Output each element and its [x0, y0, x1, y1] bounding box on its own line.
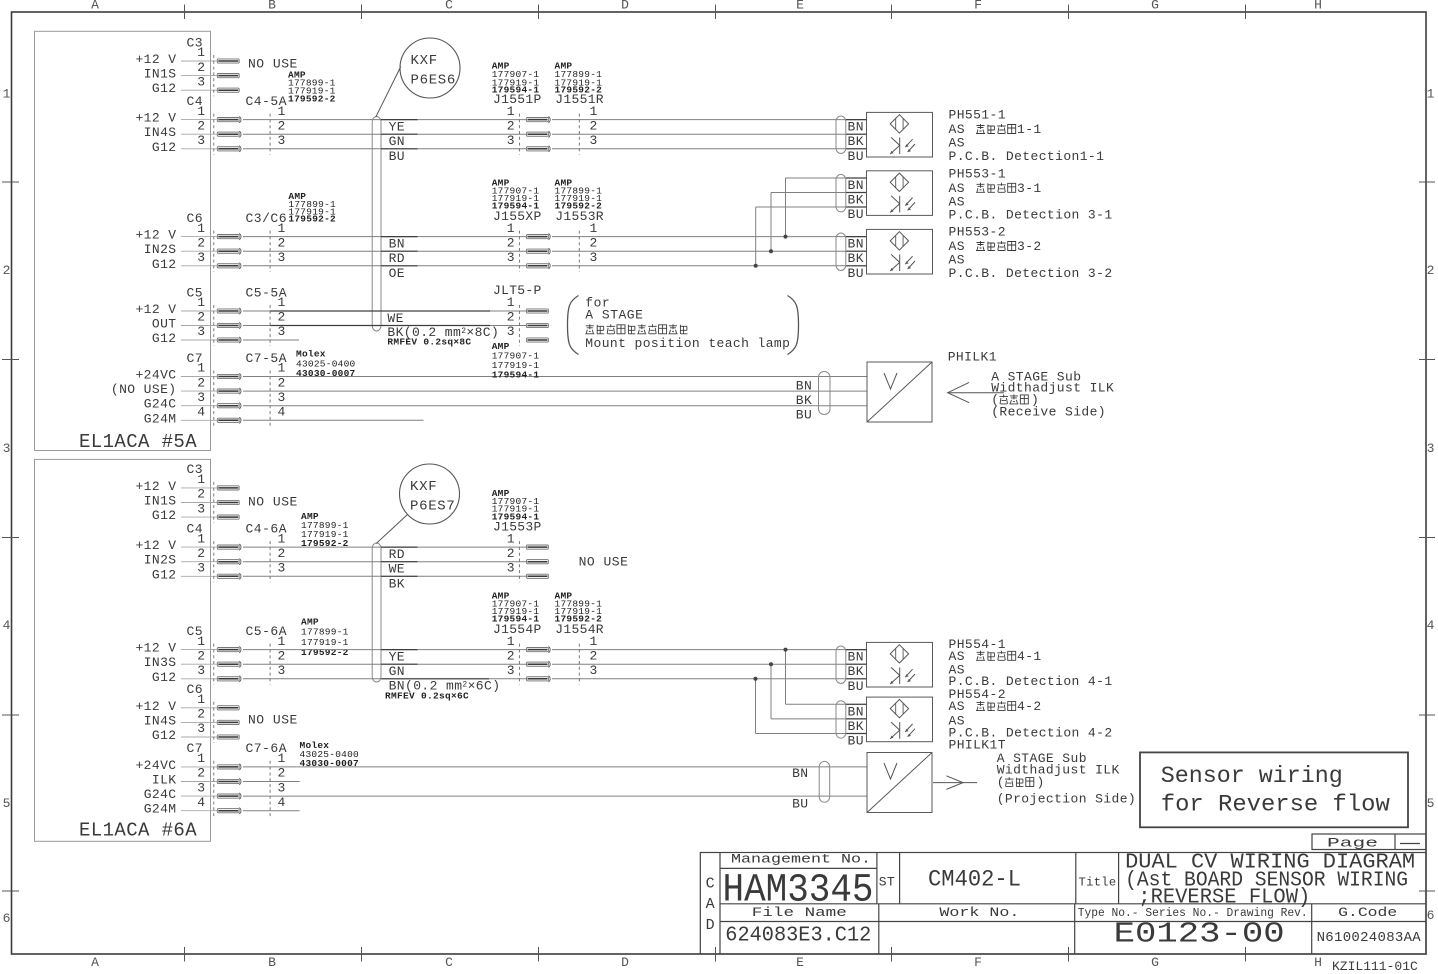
svg-text:1: 1 — [197, 295, 205, 310]
wire color label BN C3/C6 cable — [381, 237, 418, 252]
wire color label RD C4-6A cable — [381, 547, 418, 562]
cable sheath PH554-1 cable — [836, 646, 846, 684]
frame column letters top — [91, 0, 1322, 13]
connector face dashed line J155XP — [518, 231, 520, 272]
wire stub pin 1 of C4 — [181, 119, 217, 121]
pin contact 3 of C7 — [217, 794, 239, 798]
part number stack AMP J155XP — [492, 178, 540, 212]
frame row tick marks left — [2, 182, 19, 891]
wire BN J1553R to PH553-2 — [552, 236, 867, 238]
wire BU branch to PH553-1 — [756, 207, 867, 266]
photo sensor PH554-2 — [867, 697, 933, 742]
wire color labels BN BU PHILK1T — [792, 766, 808, 812]
svg-text:BK: BK — [848, 664, 864, 679]
wire BK C5-5A to JLT5-P pin2 — [243, 325, 527, 327]
connector face dashed line C6 — [213, 702, 215, 743]
svg-text:ST: ST — [879, 875, 895, 890]
connector face dashed line C7 — [213, 761, 215, 817]
wire color label BK(0.2 mm2x8C) C5-5A cable — [270, 325, 499, 340]
EL1ACA #6A board box — [35, 459, 211, 841]
wire stub pin 3 of C7 — [181, 795, 217, 797]
svg-text:for Reverse flow: for Reverse flow — [1161, 792, 1390, 818]
wire stub pin 2 of C5 — [181, 663, 217, 665]
svg-text:PH553-2: PH553-2 — [949, 225, 1006, 240]
wire stub C7-6A pin2 ILK — [243, 781, 300, 783]
svg-text:AS: AS — [949, 699, 965, 714]
part number stack AMP C3/C6 — [288, 191, 336, 225]
part number stack AMP C5-6A — [301, 616, 349, 658]
connector face dashed line C5 — [213, 305, 215, 346]
wire BK C7-5A to PHILK1 — [243, 390, 867, 392]
sensor labels PH554-1 — [949, 637, 1113, 689]
wire BN C5-6A to J1554P — [243, 678, 527, 680]
wire WE C4-6A to J1553P — [243, 561, 527, 563]
svg-text:3: 3 — [197, 501, 205, 516]
cable sheath PHILK1 cable — [819, 372, 831, 415]
svg-text:EL1ACA #5A: EL1ACA #5A — [79, 431, 197, 453]
svg-text:): ) — [1037, 775, 1045, 790]
part number stack AMP J1553R — [555, 178, 603, 212]
part number stack AMP C4-6A — [301, 511, 349, 549]
part number stack AMP J1554P — [492, 591, 540, 625]
svg-text:BN: BN — [389, 237, 405, 252]
svg-text:C: C — [445, 0, 453, 13]
wire stub C5-5A pin3 — [243, 339, 299, 341]
svg-text:3: 3 — [590, 133, 598, 148]
wire stub pin 1 of C6 — [181, 707, 217, 709]
svg-text:3: 3 — [278, 780, 286, 795]
svg-text:2: 2 — [507, 118, 515, 133]
svg-text:1: 1 — [3, 87, 11, 102]
pin contact 1 of C7 — [217, 374, 239, 378]
wire BK branch to PH553-1 — [771, 193, 867, 252]
svg-text:BK: BK — [848, 193, 864, 208]
wire stub pin 3 of C5 — [181, 678, 217, 680]
svg-text:EL1ACA #6A: EL1ACA #6A — [79, 820, 197, 842]
svg-text:2: 2 — [278, 648, 286, 663]
cable sheath PHILK1T cable — [819, 761, 830, 802]
svg-text:3: 3 — [197, 780, 205, 795]
svg-text:3: 3 — [507, 324, 515, 339]
wire stub pin 2 of C3 — [181, 502, 217, 504]
svg-text:3: 3 — [197, 561, 205, 576]
wire color label BK PH554-2 — [846, 719, 867, 734]
svg-text:1: 1 — [197, 692, 205, 707]
svg-text:3: 3 — [197, 74, 205, 89]
part number stack AMP J1554R — [555, 591, 603, 625]
svg-text:AS: AS — [949, 649, 965, 664]
pin contact 1 of C3 — [217, 59, 239, 63]
wire label RMFEV 0.2sqx8C — [387, 336, 471, 347]
pin contact 3 of C4 — [217, 574, 239, 578]
connector face dashed line C5 — [213, 644, 215, 685]
interlock sensor PHILK1 — [867, 362, 932, 422]
pin contact 1 of J155XP — [527, 234, 551, 240]
svg-text:D: D — [706, 917, 715, 934]
svg-text:IN2S: IN2S — [144, 242, 177, 257]
svg-text:2: 2 — [197, 235, 205, 250]
svg-text:2: 2 — [507, 235, 515, 250]
pin contact 1 of C4 — [217, 118, 239, 122]
connector face dashed line J1551P — [518, 114, 520, 155]
svg-text:+12 V: +12 V — [135, 479, 176, 494]
svg-text:+12 V: +12 V — [135, 52, 176, 67]
wire color label YE C5-6A cable — [381, 650, 418, 665]
wire color label GN C5-6A cable — [381, 664, 418, 679]
svg-text:BU: BU — [792, 797, 808, 812]
svg-text:C4-5A: C4-5A — [246, 94, 288, 109]
wire stub pin 3 of C4 — [181, 148, 217, 150]
svg-text:(Receive Side): (Receive Side) — [991, 405, 1106, 420]
svg-text:C: C — [445, 955, 453, 970]
svg-text:3: 3 — [1427, 441, 1435, 456]
wire stub pin 1 of C7 — [181, 376, 217, 378]
svg-text:P6ES7: P6ES7 — [410, 499, 456, 515]
frame column tick marks top — [185, 5, 1246, 20]
wire color label OE C3/C6 cable — [381, 266, 418, 281]
svg-text:1: 1 — [590, 104, 598, 119]
pin contact 1 of J1551P — [527, 117, 551, 123]
svg-text:KZIL111-01C: KZIL111-01C — [1332, 959, 1418, 974]
wire BK J1553R to PH553-2 — [552, 250, 867, 252]
part number stack Molex C7-6A — [300, 740, 360, 769]
svg-text:3: 3 — [278, 250, 286, 265]
brace note A STAGE teach lamp — [568, 295, 799, 354]
svg-text:1: 1 — [1427, 87, 1435, 102]
wire stub pin 1 of C3 — [181, 60, 217, 62]
pin contact 2 of C4 — [217, 560, 239, 564]
svg-text:BK: BK — [389, 576, 405, 591]
pin contact 2 of JLT5-P — [527, 323, 549, 327]
connector J1554R — [555, 622, 604, 685]
junction dot BK branch PH553 — [769, 249, 773, 253]
junction dot BU branch PH554 — [754, 677, 758, 681]
wire RD C4-6A to J1553P — [243, 546, 527, 548]
svg-text:ILK: ILK — [152, 773, 177, 788]
svg-text:2: 2 — [590, 118, 598, 133]
label NO USE C3 #5A — [248, 57, 298, 72]
pin contact 1 of C4 — [217, 545, 239, 549]
wire stub pin 1 of C7 — [181, 766, 217, 768]
connector face dashed line C6 — [213, 231, 215, 272]
title block frame — [700, 853, 1426, 955]
wire color label RD C3/C6 cable — [381, 251, 418, 266]
pin contact 1 of J1553P — [527, 545, 549, 549]
wire stub pin 4 of C7 — [181, 419, 217, 421]
pin contact 2 of C3 — [217, 74, 239, 78]
svg-text:P.C.B. Detection1-1: P.C.B. Detection1-1 — [949, 149, 1105, 164]
frame column letters bottom — [91, 955, 1322, 970]
svg-text:B: B — [268, 955, 276, 970]
pin contact 2 of J155XP — [527, 248, 551, 254]
svg-text:1: 1 — [197, 45, 205, 60]
pin contact 2 of J1553P — [527, 560, 549, 564]
wire stub pin 3 of C6 — [181, 736, 217, 738]
svg-text:3: 3 — [590, 663, 598, 678]
wire BN J1554R to PH554-1 — [552, 649, 867, 651]
connector C3 (#6A) — [135, 462, 239, 523]
frame row numbers right — [1427, 87, 1435, 924]
pin contact 3 of J155XP — [527, 263, 551, 269]
svg-text:G24M: G24M — [144, 802, 177, 817]
pin contact 1 of J1554P — [527, 647, 551, 653]
pin contact 3 of C5 — [217, 338, 239, 342]
wire color label BK PH551-1 — [846, 134, 867, 149]
wire stub pin 1 of C4 — [181, 546, 217, 548]
svg-text:E0123-00: E0123-00 — [1114, 918, 1285, 951]
svg-text:RMFEV 0.2sq×8C: RMFEV 0.2sq×8C — [387, 336, 471, 347]
svg-text:1: 1 — [197, 472, 205, 487]
svg-text:3: 3 — [278, 663, 286, 678]
wire stub pin 3 of C4 — [181, 575, 217, 577]
connector face dashed line C7 — [213, 371, 215, 427]
svg-text:C: C — [706, 875, 715, 892]
svg-text:2: 2 — [1427, 263, 1435, 278]
wire BN J1551R to PH551-1 — [552, 119, 867, 121]
svg-text:BK: BK — [848, 719, 864, 734]
svg-text:G12: G12 — [152, 567, 177, 582]
svg-text:H: H — [1314, 0, 1322, 13]
svg-text:GN: GN — [389, 134, 405, 149]
svg-text:G12: G12 — [152, 508, 177, 523]
svg-text:2: 2 — [507, 310, 515, 325]
wire BU C7-6A to PHILK1T — [243, 795, 867, 797]
svg-text:A STAGE: A STAGE — [585, 307, 643, 322]
wire BU J1551R to PH551-1 — [552, 148, 867, 150]
photo sensor PH554-1 — [867, 642, 933, 687]
svg-text:PHILK1: PHILK1 — [948, 349, 997, 364]
svg-text:2: 2 — [278, 546, 286, 561]
junction dot BK branch PH554 — [769, 662, 773, 666]
pin contact 2 of C3 — [217, 500, 239, 504]
svg-text:3: 3 — [3, 441, 11, 456]
pin contact 3 of C7 — [217, 404, 239, 408]
label NO USE J1553P — [579, 555, 629, 570]
svg-text:J1554P: J1554P — [493, 622, 542, 637]
svg-text:1: 1 — [197, 221, 205, 236]
svg-text:2: 2 — [590, 648, 598, 663]
svg-text:JLT5-P: JLT5-P — [493, 283, 542, 298]
pin contact 1 of C7 — [217, 765, 239, 769]
svg-text:WE: WE — [387, 311, 403, 326]
svg-text:G: G — [1151, 955, 1159, 970]
svg-text:IN1S: IN1S — [144, 494, 177, 509]
svg-text:J1553P: J1553P — [493, 519, 542, 534]
wire stub pin 3 of C7 — [181, 405, 217, 407]
connector C4 (#6A) — [135, 521, 287, 582]
svg-text:1: 1 — [590, 634, 598, 649]
svg-text:BN: BN — [848, 120, 864, 135]
svg-text:(NO USE): (NO USE) — [111, 382, 177, 397]
svg-text:2: 2 — [278, 375, 286, 390]
wire color label BN PH553-1 — [846, 178, 867, 193]
sensor labels PH553-2 — [949, 225, 1113, 281]
wire color label GN C4-5A cable — [381, 134, 418, 149]
wire BK J1551R to PH551-1 — [552, 133, 867, 135]
page box — [1312, 834, 1426, 851]
labels PHILK1 — [948, 349, 1115, 419]
svg-text:Work No.: Work No. — [939, 905, 1019, 920]
wire color label YE C4-5A cable — [381, 120, 418, 135]
sensor labels PH554-2 — [949, 687, 1113, 741]
svg-text:+12 V: +12 V — [135, 111, 176, 126]
svg-text:NO USE: NO USE — [579, 555, 629, 570]
frame column tick marks bottom — [185, 947, 1246, 962]
svg-text:J155XP: J155XP — [493, 209, 542, 224]
pin contact 3 of C4 — [217, 147, 239, 151]
connector C4 (#5A) — [135, 94, 287, 155]
svg-text:2: 2 — [590, 235, 598, 250]
svg-text:2: 2 — [197, 60, 205, 75]
interlock sensor PHILK1T — [867, 753, 932, 813]
pin contact 4 of C7 — [217, 418, 239, 422]
svg-text:179592-2: 179592-2 — [301, 647, 349, 658]
svg-text:BU: BU — [848, 207, 864, 222]
balloon KXF P6ES7 — [376, 464, 459, 544]
svg-text:2: 2 — [278, 310, 286, 325]
cable sheath KXF P6ES6 cable — [372, 117, 381, 332]
cable sheath KXF P6ES7 cable — [372, 543, 381, 682]
wire BN C7-5A to PHILK1 — [243, 376, 867, 378]
svg-text:G12: G12 — [152, 257, 177, 272]
svg-text:6: 6 — [3, 911, 11, 926]
part number stack AMP J1551R — [555, 61, 603, 96]
wire stub pin 2 of C6 — [181, 250, 217, 252]
svg-text:4: 4 — [278, 405, 286, 420]
pin contact 3 of C3 — [217, 88, 239, 92]
cable sheath PH551-1 cable — [836, 116, 846, 154]
connector C6 (#5A) — [135, 211, 287, 272]
svg-text:2: 2 — [197, 766, 205, 781]
frame row tick marks right — [1419, 182, 1435, 891]
sensor labels PH553-1 — [949, 167, 1113, 223]
wire BU J1554R to PH554-1 — [552, 678, 867, 680]
svg-text:2: 2 — [278, 235, 286, 250]
svg-text:E: E — [796, 0, 804, 13]
wire BK J1554R to PH554-1 — [552, 663, 867, 665]
svg-text:IN2S: IN2S — [144, 553, 177, 568]
svg-text:Widthadjust ILK: Widthadjust ILK — [991, 381, 1114, 396]
svg-text:+12 V: +12 V — [135, 538, 176, 553]
svg-text:CM402-L: CM402-L — [928, 867, 1021, 893]
pin contact 2 of C7 — [217, 779, 239, 783]
connector C5 (#6A) — [135, 624, 287, 685]
svg-text:A: A — [706, 896, 715, 913]
svg-text:Mount position teach lamp: Mount position teach lamp — [585, 336, 790, 351]
svg-text:2: 2 — [197, 118, 205, 133]
connector JLT5-P — [493, 283, 548, 346]
svg-text:YE: YE — [389, 650, 405, 665]
svg-text:1: 1 — [507, 295, 515, 310]
svg-text:G.Code: G.Code — [1338, 905, 1397, 920]
svg-text:C5-6A: C5-6A — [246, 624, 288, 639]
svg-text:G12: G12 — [152, 670, 177, 685]
connector J1551R — [555, 92, 604, 155]
junction dot BU branch PH553 — [754, 264, 758, 268]
svg-text:G12: G12 — [152, 81, 177, 96]
svg-text:2: 2 — [197, 546, 205, 561]
title block texts — [706, 850, 1422, 950]
svg-text:G: G — [1151, 0, 1159, 13]
wire color label BU C4-5A cable — [381, 149, 418, 164]
connector C7 (#5A) — [111, 351, 287, 427]
svg-text:PH553-1: PH553-1 — [949, 167, 1006, 182]
svg-text:3-1: 3-1 — [1017, 181, 1042, 196]
wire BN C7-6A to PHILK1T — [243, 766, 867, 768]
svg-text:2: 2 — [197, 310, 205, 325]
svg-text:3: 3 — [507, 133, 515, 148]
pin contact 1 of JLT5-P — [527, 309, 549, 313]
junction dot BN branch PH553 — [784, 235, 788, 239]
svg-text:+12 V: +12 V — [135, 228, 176, 243]
svg-text:NO USE: NO USE — [248, 495, 298, 510]
svg-text:2: 2 — [3, 263, 11, 278]
pin contact 2 of C4 — [217, 132, 239, 136]
svg-text:4: 4 — [197, 405, 205, 420]
pin contact 1 of C6 — [217, 706, 239, 710]
wire stub pin 4 of C7 — [181, 810, 217, 812]
pin contact 1 of C3 — [217, 486, 239, 490]
wire stub pin 2 of C4 — [181, 561, 217, 563]
wire color labels BN BK BU PHILK1 — [796, 379, 812, 423]
svg-text:OUT: OUT — [152, 317, 177, 332]
svg-text:4: 4 — [3, 618, 11, 633]
svg-text:BU: BU — [848, 149, 864, 164]
wire color label BK PH553-2 — [846, 251, 867, 266]
wire color label BK C4-6A cable — [381, 576, 418, 591]
part number stack Molex C7-5A — [296, 349, 356, 380]
connector J1554P — [493, 622, 550, 685]
svg-text:3: 3 — [197, 663, 205, 678]
wire stub pin 1 of C5 — [181, 649, 217, 651]
wire BU branch to PH554-2 — [756, 679, 867, 734]
photo sensor PH551-1 — [867, 112, 933, 157]
svg-text:KXF: KXF — [411, 53, 438, 69]
svg-text:Widthadjust ILK: Widthadjust ILK — [997, 763, 1120, 778]
svg-text:BU: BU — [848, 679, 864, 694]
part number stack AMP C7-5A J — [492, 341, 540, 381]
wire label RMFEV 0.2sqx6C — [385, 690, 469, 701]
wire color label BK PH553-1 — [846, 193, 867, 208]
connector J1553P — [493, 519, 548, 582]
wire stub pin 1 of C6 — [181, 236, 217, 238]
EL1ACA #5A board box — [35, 31, 211, 453]
svg-text:G24C: G24C — [144, 787, 177, 802]
wire stub pin 3 of C3 — [181, 89, 217, 91]
wire color label BU PH553-1 — [846, 207, 867, 222]
svg-text:179594-1: 179594-1 — [492, 370, 540, 381]
svg-text:G12: G12 — [152, 140, 177, 155]
wire GN C4-5A to J1551P — [243, 133, 527, 135]
arrow projection PHILK1T — [933, 776, 977, 790]
svg-text:3: 3 — [197, 250, 205, 265]
svg-text:1: 1 — [590, 221, 598, 236]
svg-text:2: 2 — [278, 118, 286, 133]
pin contact 1 of C6 — [217, 235, 239, 239]
svg-text:+12 V: +12 V — [135, 302, 176, 317]
wire stub pin 3 of C3 — [181, 516, 217, 518]
svg-text:RD: RD — [389, 547, 405, 562]
wire color label BN PH554-1 — [846, 650, 867, 665]
svg-text:1: 1 — [507, 221, 515, 236]
wire stub C7-5A pin4 — [243, 419, 423, 421]
svg-text:BK: BK — [848, 134, 864, 149]
wire BU C4-5A to J1551P — [243, 148, 527, 150]
connector C5 (#5A) — [135, 285, 287, 346]
wire stub pin 2 of C7 — [181, 390, 217, 392]
svg-text:(Projection Side): (Projection Side) — [997, 792, 1136, 807]
pin contact 2 of J1551P — [527, 131, 551, 137]
